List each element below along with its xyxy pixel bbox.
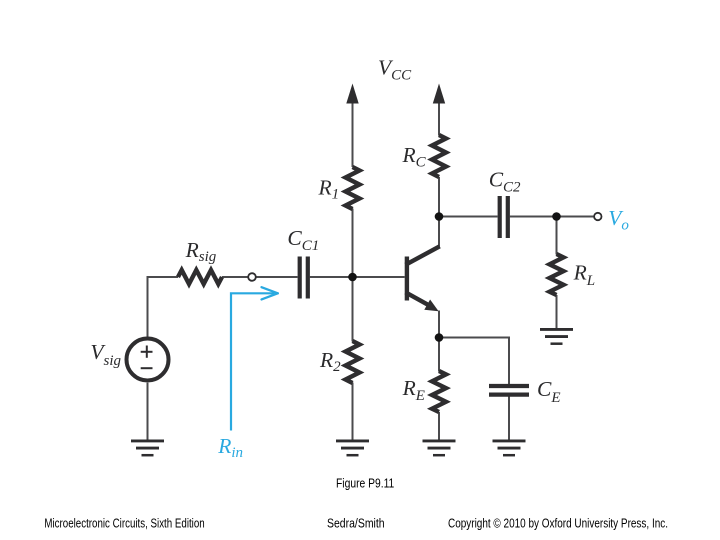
svg-text:Vo: Vo bbox=[608, 206, 629, 234]
svg-text:Rin: Rin bbox=[217, 434, 243, 461]
svg-text:RC: RC bbox=[402, 143, 427, 170]
svg-text:R2: R2 bbox=[319, 348, 341, 375]
svg-text:CE: CE bbox=[537, 377, 561, 406]
svg-text:Vsig: Vsig bbox=[90, 340, 121, 369]
svg-text:R1: R1 bbox=[318, 175, 340, 202]
svg-text:Copyright © 2010 by Oxford Uni: Copyright © 2010 by Oxford University Pr… bbox=[448, 516, 668, 530]
svg-text:Figure P9.11: Figure P9.11 bbox=[336, 477, 394, 491]
svg-text:RL: RL bbox=[573, 261, 595, 289]
svg-text:Rsig: Rsig bbox=[185, 238, 217, 265]
svg-text:Sedra/Smith: Sedra/Smith bbox=[327, 516, 385, 530]
svg-text:CC2: CC2 bbox=[489, 167, 521, 195]
svg-text:RE: RE bbox=[402, 376, 425, 404]
svg-text:VCC: VCC bbox=[378, 56, 412, 84]
svg-text:CC1: CC1 bbox=[287, 226, 319, 254]
svg-text:Microelectronic Circuits, Sixt: Microelectronic Circuits, Sixth Edition bbox=[44, 516, 204, 530]
